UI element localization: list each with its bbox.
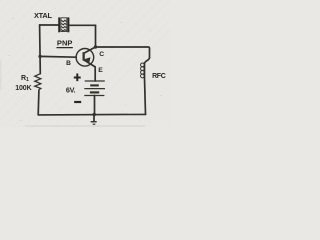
paper background: [0, 0, 171, 127]
wire: left vertical (top section): [39, 25, 42, 74]
battery short plate 2: [90, 91, 99, 93]
crystal XTAL symbol: [58, 17, 69, 32]
svg-text:100K: 100K: [15, 85, 31, 92]
ground stub below bus: [93, 115, 95, 121]
battery long plate 2: [84, 88, 105, 90]
transistor emitter lead: [84, 60, 96, 81]
transistor base bar: [83, 52, 85, 60]
label minus: [74, 101, 81, 103]
wire: collector down-leg from top wire: [95, 25, 97, 47]
ground bars: [91, 122, 97, 125]
wire: collector rail to right side: [96, 47, 150, 58]
labels: [15, 11, 166, 103]
transistor Q1 circle: [76, 49, 94, 67]
transistor PNP emitter arrow: [84, 57, 90, 63]
resistor R1 zigzag: [35, 74, 41, 91]
svg-text:B: B: [66, 60, 71, 67]
scan speckles: [8, 8, 162, 121]
crystal hatching: [61, 20, 66, 31]
wire: base wire: [40, 55, 76, 58]
bottom scan smudge: [25, 125, 145, 127]
inductor RFC coil loops: [141, 63, 145, 78]
wire: right side jog down to choke: [145, 58, 150, 64]
svg-text:6V.: 6V.: [66, 85, 76, 94]
wire: top wire left of crystal: [40, 24, 59, 26]
svg-text:1: 1: [26, 77, 29, 83]
svg-text:PNP: PNP: [57, 39, 73, 48]
node: collector junction dot: [94, 45, 97, 48]
svg-text:RFC: RFC: [152, 73, 166, 80]
paper halftone texture: [0, 0, 220, 130]
wire: right vertical through/below choke: [145, 63, 146, 114]
battery long plate 1: [85, 80, 105, 82]
battery short plate 1: [90, 84, 99, 86]
battery B1: [84, 81, 105, 96]
svg-text:E: E: [98, 67, 103, 74]
battery long plate 3: [84, 95, 104, 97]
wire: battery bottom to bus: [94, 95, 96, 114]
wire: bottom bus: [38, 113, 145, 116]
node: bus/battery junction dot: [92, 113, 96, 117]
svg-text:C: C: [99, 51, 104, 58]
crystal body rect: [61, 18, 67, 32]
crystal left plate: [58, 17, 60, 32]
node: base junction dot: [38, 55, 41, 58]
transistor collector lead: [85, 47, 96, 53]
crystal right plate: [67, 17, 69, 32]
label +: [74, 77, 81, 79]
wire: top wire right of crystal: [69, 24, 95, 26]
svg-text:XTAL: XTAL: [34, 11, 52, 20]
wire: left vertical (bottom section): [37, 91, 40, 115]
